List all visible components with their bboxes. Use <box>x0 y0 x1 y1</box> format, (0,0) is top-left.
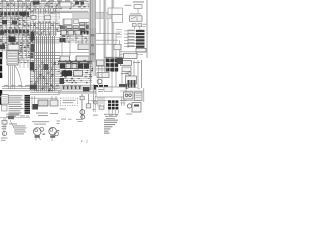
main vertical bus wire <box>89 0 91 90</box>
idle solenoid circle <box>97 79 102 84</box>
junction rows band 3 right <box>30 21 60 26</box>
legend key box rows <box>2 96 7 102</box>
ground strap dark dash <box>60 38 66 42</box>
vertical wires below ECM <box>94 84 105 108</box>
svg-text:F - 2: F - 2 <box>81 140 88 144</box>
junction rows band 3 left <box>0 18 30 26</box>
left edge dark mark 2 <box>0 45 5 50</box>
junction box J3 <box>60 56 70 62</box>
connector pin stack <box>124 30 145 48</box>
white band gap x30-60 y14-22 <box>30 14 59 22</box>
small pilot circle <box>128 72 132 76</box>
connector pair <box>97 60 105 66</box>
relay block K1 dark <box>31 32 35 41</box>
dark terminal bank <box>108 100 118 109</box>
diode box D1 <box>134 5 142 9</box>
relay box K5 <box>130 16 143 21</box>
vertical wires mid <box>62 19 82 56</box>
coil box <box>86 104 91 108</box>
horizontal wires lower-left <box>2 86 60 88</box>
stub wires from mesh above <box>20 60 28 68</box>
wire <box>120 90 144 92</box>
dark cells row y30 <box>1 30 30 34</box>
switch box S1 <box>106 58 113 62</box>
distributor feed wire <box>81 94 83 118</box>
dark module cluster upper <box>106 59 118 72</box>
wire <box>137 8 139 13</box>
dark component top edge <box>33 1 40 5</box>
white label box on band <box>63 19 72 25</box>
mesh lower rows <box>30 93 60 95</box>
ground lug dark <box>60 78 65 84</box>
solenoid box <box>50 100 58 106</box>
switch box S2 <box>115 58 122 62</box>
tiny label <box>61 118 66 121</box>
sensor box <box>97 73 109 78</box>
fuse row dark cells <box>1 12 30 16</box>
ECM inner connector box <box>104 87 112 92</box>
dash harness mesh right-center <box>60 60 93 84</box>
label NOT USED <box>133 1 144 2</box>
smudges on vertical band <box>90 34 95 36</box>
lamp module box <box>126 76 137 84</box>
tiny text bottom-left <box>1 138 8 139</box>
arrow label left <box>125 5 132 6</box>
fuse panel wiring rows top <box>0 1 62 10</box>
label box top mid <box>60 2 71 7</box>
terminal dashes <box>81 31 89 34</box>
box with label right <box>121 61 132 66</box>
harness rows band 6 <box>0 43 32 52</box>
bank caption text <box>104 113 118 116</box>
washer pump motor M11 <box>49 127 57 135</box>
buzzer circle <box>127 104 131 108</box>
wire <box>88 100 108 102</box>
swoop wire to notes <box>10 120 14 128</box>
dark cluster left of lamp box <box>117 58 124 64</box>
dark connector row bottom <box>94 85 108 90</box>
windshield wiper motor M10 <box>33 128 41 136</box>
harness wires right of block <box>30 53 60 59</box>
tiny label 2 <box>76 118 83 121</box>
vertical wires through gap <box>33 14 56 22</box>
sender circle <box>94 101 97 104</box>
left margin black bar dashes <box>0 52 2 105</box>
switch box S0 <box>114 45 121 50</box>
flasher box <box>135 92 143 101</box>
fuse holder box <box>2 121 7 125</box>
wire mid bus <box>56 12 88 14</box>
relay row <box>60 64 89 69</box>
right drop wires <box>94 96 96 112</box>
note paragraph text <box>9 123 27 134</box>
swoop wire from connector <box>15 66 22 88</box>
label <box>130 13 141 14</box>
wire ribbon upper-center verticals <box>34 8 56 36</box>
tiny marks right drops <box>93 101 96 102</box>
labels left <box>2 126 7 127</box>
wires right-center horizontals <box>96 67 108 71</box>
harness rows band 5 <box>0 35 35 43</box>
bank lead wires <box>109 110 119 114</box>
grommet circle <box>2 131 6 135</box>
box with label right 2 <box>122 67 131 72</box>
legend key box <box>1 95 8 105</box>
module dark M2 <box>62 71 73 77</box>
instrument box outline <box>108 8 123 15</box>
wire <box>139 27 141 30</box>
destination label list <box>104 120 118 134</box>
terminal box T1 <box>136 48 146 52</box>
grey band darker middle <box>89 28 96 62</box>
dark splice y20-26 b <box>12 21 17 25</box>
capacitor symbol <box>133 24 137 27</box>
tiny marks above list <box>93 114 98 117</box>
label rows <box>32 121 49 122</box>
splice block dark B <box>30 85 37 90</box>
wire drop left edge <box>3 118 5 136</box>
connector C1b dark <box>30 53 33 58</box>
starter relay box <box>38 100 48 106</box>
dashed option box <box>61 98 78 106</box>
harness rows band 4 <box>0 27 59 36</box>
dark splice y20-26 <box>2 20 7 24</box>
motor M10 terminal <box>43 134 46 135</box>
wire <box>30 97 58 99</box>
grey wire column A <box>104 0 106 72</box>
relay block K2 dark <box>9 37 16 43</box>
wire <box>120 51 146 53</box>
inline connector on wire <box>8 116 14 119</box>
wire <box>120 54 143 56</box>
splice block dark C <box>44 64 49 70</box>
capacitor symbol 2 <box>138 24 142 27</box>
harness lines band 5 right <box>34 38 60 43</box>
vertical bus wire 3 <box>92 0 94 70</box>
grey wire column B <box>112 0 114 72</box>
edge marks <box>57 121 61 122</box>
wire <box>133 27 135 30</box>
vertical bus wire 2 <box>94 0 96 76</box>
vertical grey scan band lower <box>90 62 96 76</box>
dark component top edge 2 <box>20 12 26 16</box>
motor M10 lead <box>35 138 37 141</box>
large ECM box outline <box>96 87 126 97</box>
pickup box on wire <box>80 96 84 100</box>
component row mid-top <box>60 1 91 10</box>
connector C1 dark <box>31 44 35 52</box>
horn contact 2 <box>129 94 132 97</box>
wire <box>120 99 142 101</box>
striped connector block C100 <box>7 51 18 66</box>
tiny label <box>126 114 132 115</box>
connector grid C2 <box>60 22 91 31</box>
vertical wires far right mid <box>122 60 138 88</box>
ECM text rows <box>98 88 104 91</box>
junction rows band 2 <box>0 10 60 18</box>
vertical grey scan band <box>89 0 96 62</box>
motor M11 terminal <box>57 130 59 131</box>
wire <box>120 44 122 58</box>
diagonal jumper wires top <box>30 3 78 15</box>
top edge text fragments <box>1 0 86 1</box>
dark component marks top mid <box>75 1 79 5</box>
small sender box <box>99 106 104 109</box>
distributor circle <box>80 110 85 115</box>
wire <box>104 56 124 58</box>
ignition coil dark blob <box>33 104 39 110</box>
bus wires lower center <box>58 85 101 93</box>
module M3 <box>74 71 83 77</box>
main harness vertical wire x30 <box>30 2 32 90</box>
lead dashes to pin stack <box>116 30 122 38</box>
splice block dark A <box>30 62 34 71</box>
right side labels <box>121 99 127 102</box>
engine harness mesh center <box>30 60 63 91</box>
dark bus pair <box>58 61 92 63</box>
component labels <box>36 113 48 114</box>
resistor block R1 <box>78 44 90 50</box>
lamp elements dark <box>128 80 136 88</box>
labels far right mid <box>121 73 129 74</box>
terminal tick row <box>62 86 81 90</box>
band top edge wire <box>72 11 120 13</box>
wire <box>143 88 145 102</box>
wires right-mid verticals <box>100 0 120 60</box>
motor M10 lead 2 <box>39 138 41 140</box>
left edge dark mark 1 <box>0 31 4 35</box>
splice blob on bus <box>83 87 90 92</box>
instrument box outline 2 <box>112 15 123 23</box>
wire drop left edge 2 <box>5 118 7 130</box>
vertical bus wires upper-left <box>3 2 27 59</box>
wires right-mid horizontals <box>96 34 120 45</box>
wire ribbon going down to engine bay <box>35 36 55 92</box>
wire across bottom-left <box>0 117 30 119</box>
pin stack feed wire <box>127 31 129 48</box>
wire mid bus a <box>56 10 88 12</box>
horn buttons box <box>124 92 134 99</box>
component boxes in gap <box>31 16 36 20</box>
label under option box <box>60 109 66 110</box>
right side drop wires <box>122 97 125 106</box>
legend text rows with swatches <box>9 95 31 116</box>
vertical wires from connector <box>9 65 15 89</box>
swoop wires lower right <box>124 87 140 90</box>
label marks right of connector <box>20 115 25 116</box>
band bottom edge wire <box>72 17 120 19</box>
small box beside <box>74 20 79 24</box>
right harness wire <box>141 60 143 88</box>
harness rows band 7 left <box>18 51 31 63</box>
module rows mid <box>60 30 90 43</box>
rotor circle <box>81 115 85 119</box>
horn contact 1 <box>125 94 128 97</box>
legend key box lower <box>2 105 8 111</box>
faint wire in gap <box>30 15 59 17</box>
wires right-center short verticals <box>99 65 103 85</box>
vertical wires right-center <box>112 72 116 91</box>
horizontal grey highlight band <box>72 12 120 18</box>
motor M11 lead <box>51 138 53 141</box>
tiny labels right of capacitors <box>143 23 147 26</box>
coil feed wire <box>88 94 90 108</box>
faint wire in gap 2 <box>30 18 59 20</box>
white label box y44 <box>8 45 19 51</box>
diagram right border wire <box>146 0 148 58</box>
control box <box>124 53 138 58</box>
legend footer text rows <box>6 114 19 115</box>
vertical drop wires <box>32 96 56 110</box>
junction box J4 <box>76 56 89 62</box>
module row M1 <box>61 30 81 35</box>
option box text <box>63 100 76 101</box>
relay box lower-right <box>132 103 141 113</box>
dark blob lower <box>119 84 127 89</box>
wire <box>60 51 90 53</box>
labels above bus lines <box>4 84 30 87</box>
paper background <box>0 0 150 150</box>
